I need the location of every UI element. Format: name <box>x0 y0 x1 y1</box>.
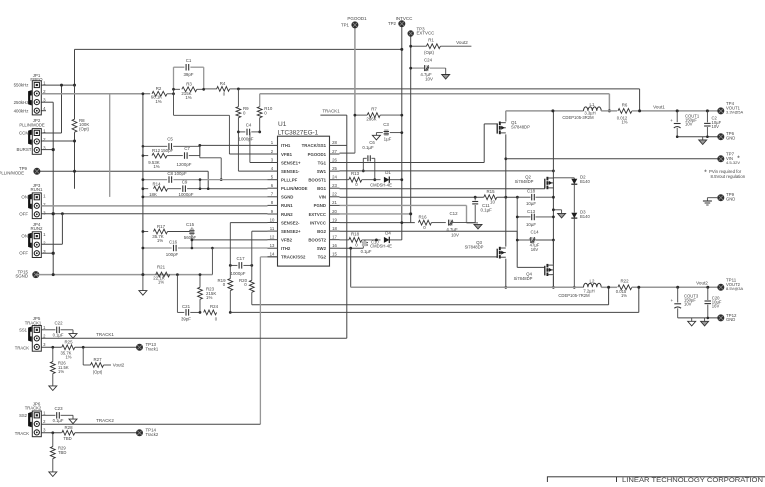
svg-text:400kHz: 400kHz <box>14 108 29 113</box>
pin 12 VFB2 <box>268 239 278 241</box>
svg-text:R7: R7 <box>371 107 377 112</box>
wire JP3 pin3 / RUN2 pin9 row <box>41 213 267 215</box>
svg-text:R22: R22 <box>620 279 629 284</box>
wire comp riser <box>199 145 201 157</box>
resistor R24 <box>204 310 217 315</box>
test point TP1 <box>351 21 358 28</box>
svg-text:C10: C10 <box>371 240 379 245</box>
jumper JP6 TRACK2 <box>32 411 41 437</box>
resistor R6 <box>618 109 632 114</box>
svg-text:R3: R3 <box>186 81 192 86</box>
svg-text:GND: GND <box>726 317 735 322</box>
svg-text:C16: C16 <box>169 239 178 244</box>
wire JP4 pin3 to gnd bus <box>41 252 53 254</box>
svg-text:C21: C21 <box>182 304 191 309</box>
svg-text:0.1µF: 0.1µF <box>481 208 493 213</box>
diode D3 B140 <box>571 213 577 218</box>
pin 6 PLLIN/MODE <box>268 187 278 189</box>
pin 3 SENSE1+ <box>268 162 278 164</box>
resistor R7 PGOOD pullup <box>367 113 380 118</box>
diode D2 B140 <box>573 178 575 179</box>
diode D1 <box>384 177 389 183</box>
pin 8 RUN1 <box>268 204 278 206</box>
svg-text:1000pF: 1000pF <box>239 137 254 142</box>
resistor R23 vertical <box>199 275 201 288</box>
wire TP15 SGND row <box>36 274 213 276</box>
svg-text:100pF: 100pF <box>166 252 179 257</box>
wire SENSE1+ pin3 riser <box>249 132 251 163</box>
jumper JP2 PLLIN/MODE <box>32 129 41 155</box>
svg-text:TRACK: TRACK <box>15 345 29 350</box>
svg-text:GND: GND <box>726 135 735 140</box>
test point TP2 vertical <box>401 24 403 240</box>
svg-text:SS2: SS2 <box>19 413 28 418</box>
wire GND row TP12 <box>678 317 721 319</box>
svg-text:TBD: TBD <box>63 436 71 441</box>
wire SENSE1+ long row grey <box>260 93 610 95</box>
wire sense A long row <box>252 304 609 306</box>
svg-text:C15: C15 <box>186 222 195 227</box>
svg-text:25: 25 <box>332 166 337 171</box>
svg-text:10V: 10V <box>685 122 693 127</box>
capacitor C12 <box>449 220 453 226</box>
capacitor C16 / ITH2 pin13 row <box>143 247 172 249</box>
svg-text:27: 27 <box>332 149 337 154</box>
svg-text:INTVCC: INTVCC <box>310 220 326 225</box>
pin 23 BG1 <box>330 187 340 189</box>
resistor R17 row <box>143 231 148 233</box>
svg-text:TRACK1: TRACK1 <box>322 108 340 113</box>
svg-text:PGOOD1: PGOOD1 <box>347 16 367 21</box>
wire TRACK2 row <box>41 423 260 425</box>
svg-text:R18: R18 <box>351 232 360 237</box>
svg-text:OFF: OFF <box>19 251 28 256</box>
svg-text:1%: 1% <box>206 295 212 300</box>
transistor Q1 Si7848DP <box>505 111 507 122</box>
svg-text:TRACK/SS2: TRACK/SS2 <box>281 255 306 260</box>
wire TRACK1 net riser <box>340 144 347 146</box>
svg-text:1%: 1% <box>158 279 164 284</box>
svg-text:TRACK2: TRACK2 <box>96 418 114 423</box>
svg-text:+: + <box>670 298 673 303</box>
test point TP15 SGND <box>32 271 39 278</box>
resistor R18 <box>349 238 362 243</box>
pin 11 SENSE2+ <box>268 230 278 232</box>
svg-text:SGND: SGND <box>15 274 28 279</box>
svg-text:(Opt): (Opt) <box>93 369 103 374</box>
svg-text:R6: R6 <box>622 102 628 107</box>
svg-text:21: 21 <box>332 200 337 205</box>
svg-text:R12: R12 <box>152 148 161 153</box>
pin 10 SENSE2- <box>268 222 278 224</box>
svg-text:8.5Vout regulation: 8.5Vout regulation <box>711 174 746 179</box>
svg-text:TRACK2: TRACK2 <box>25 406 42 411</box>
pin 20 EXTVCC <box>330 213 340 215</box>
svg-text:0.1µF: 0.1µF <box>362 145 374 150</box>
svg-text:B140: B140 <box>580 179 590 184</box>
resistor R26 vertical <box>52 347 54 361</box>
title block <box>547 477 765 487</box>
svg-text:OFF: OFF <box>19 212 28 217</box>
svg-text:RUN1: RUN1 <box>31 187 44 192</box>
svg-text:1%: 1% <box>155 99 161 104</box>
svg-text:TP2: TP2 <box>388 21 397 26</box>
svg-text:16: 16 <box>332 243 337 248</box>
svg-text:39pF: 39pF <box>183 72 193 77</box>
wire VIN vertical Q1-Q3 <box>505 134 507 246</box>
svg-text:GND: GND <box>726 196 735 201</box>
svg-text:(Opt): (Opt) <box>424 50 435 55</box>
svg-text:R1: R1 <box>428 38 434 43</box>
capacitor C22 <box>41 329 55 331</box>
svg-text:SW2: SW2 <box>317 246 327 251</box>
wire SENSE1- long row <box>238 88 639 90</box>
wire JP2 pin2 row <box>41 140 75 142</box>
svg-text:Si7848DP: Si7848DP <box>514 276 533 281</box>
wire L1 to R6 <box>601 110 617 112</box>
pin 18 BG2 <box>330 230 340 232</box>
svg-text:PLLLPF: PLLLPF <box>281 178 298 183</box>
svg-text:R27: R27 <box>93 357 102 362</box>
capacitor C10 boost2 <box>362 245 364 248</box>
pin 9 RUN2 <box>268 213 278 215</box>
svg-text:BG1: BG1 <box>317 186 326 191</box>
svg-text:R21: R21 <box>157 264 166 269</box>
svg-text:C7: C7 <box>184 146 190 151</box>
test point TP3 <box>408 30 414 36</box>
resistor R4 <box>204 88 217 90</box>
svg-text:1%: 1% <box>58 369 64 374</box>
svg-text:SGND: SGND <box>281 195 293 200</box>
wire sense B long row <box>230 311 639 313</box>
svg-text:(Opt): (Opt) <box>79 126 90 131</box>
wire JP3.3 drop <box>61 214 63 245</box>
resistor R8 <box>74 85 76 119</box>
svg-text:12: 12 <box>270 235 275 240</box>
svg-text:1%: 1% <box>65 355 71 360</box>
svg-text:10: 10 <box>490 199 495 204</box>
svg-text:266K: 266K <box>366 116 376 121</box>
resistor R28 <box>41 432 61 434</box>
svg-text:+: + <box>670 118 673 123</box>
op-amp U1 LTC3827EG-1 box <box>278 136 330 266</box>
svg-text:C22: C22 <box>54 321 63 326</box>
wire cap rail left <box>516 197 518 240</box>
svg-text:17: 17 <box>332 235 337 240</box>
svg-text:0.1µF: 0.1µF <box>53 332 64 337</box>
wire TP9 PLLIN/MODE row <box>37 170 208 172</box>
pin 16 SW2 <box>330 247 340 249</box>
wire INTVCC pin19 row / resistor R16 <box>340 222 415 224</box>
svg-text:16V: 16V <box>712 304 720 309</box>
ground C24 <box>445 68 447 74</box>
svg-text:VFB1: VFB1 <box>281 152 293 157</box>
svg-text:PGND: PGND <box>314 203 326 208</box>
svg-text:R16: R16 <box>418 215 427 220</box>
svg-text:VIN: VIN <box>319 195 326 200</box>
test point TP3 vertical <box>410 34 412 223</box>
svg-text:1200pF: 1200pF <box>177 162 192 167</box>
resistor R13 <box>349 177 362 182</box>
svg-text:28: 28 <box>332 140 337 145</box>
test point TP9 gnd right <box>707 197 717 199</box>
pin 26 TG1 <box>330 162 340 164</box>
capacitor C14 <box>517 239 530 241</box>
transistor Q2 Si7848DP <box>546 177 548 181</box>
svg-text:19: 19 <box>332 217 337 222</box>
pin 24 BOOST1 <box>330 179 340 181</box>
svg-text:RUN2: RUN2 <box>281 212 293 217</box>
resistor R9 vertical <box>237 89 239 107</box>
svg-text:TP1: TP1 <box>341 22 350 27</box>
svg-text:22: 22 <box>332 192 337 197</box>
wire JP2 pin1 row <box>41 132 62 134</box>
wire TRACK/SS2 riser <box>259 257 261 424</box>
svg-text:SENSE1-: SENSE1- <box>281 169 300 174</box>
svg-text:R17: R17 <box>157 224 166 229</box>
svg-text:1%: 1% <box>621 293 627 298</box>
jumper JP5 TRACK1 <box>32 326 41 352</box>
svg-text:R4: R4 <box>220 81 226 86</box>
wire SW2 pin16 row <box>340 247 364 249</box>
svg-text:TBD: TBD <box>58 450 66 455</box>
svg-text:FREQ: FREQ <box>30 77 43 82</box>
svg-text:1%: 1% <box>157 238 163 243</box>
pin 1 ITH1 <box>268 144 278 146</box>
svg-text:150pF: 150pF <box>161 148 174 153</box>
resistor R14 / capacitor C9 row pin6 <box>143 188 148 190</box>
svg-text:13: 13 <box>270 243 275 248</box>
ground at comp bus <box>142 275 144 291</box>
svg-text:D4: D4 <box>385 231 391 236</box>
test point TP2 <box>398 20 405 27</box>
wire VFB1 pin2 row <box>229 153 267 155</box>
wire SW2 drop <box>350 248 352 287</box>
capacitor C18 <box>517 196 530 198</box>
svg-text:39pF: 39pF <box>181 316 191 321</box>
svg-text:C24: C24 <box>424 58 433 63</box>
wire SW1 node vertical <box>552 111 554 287</box>
resistor R21 row <box>156 272 170 277</box>
svg-text:Vout2: Vout2 <box>113 363 125 368</box>
wire RUN1 long row <box>41 205 267 207</box>
wire SENSE1- pin4 row <box>238 170 267 172</box>
svg-text:250kHz: 250kHz <box>14 100 29 105</box>
svg-text:14: 14 <box>270 252 275 257</box>
capacitor C3 <box>390 132 402 134</box>
wire Vout2 row <box>632 286 721 288</box>
pin 25 SW1 <box>330 170 340 172</box>
svg-text:C4: C4 <box>246 122 252 127</box>
svg-text:1%: 1% <box>621 120 627 125</box>
svg-text:TRACK1: TRACK1 <box>25 320 42 325</box>
capacitor C24 <box>411 67 424 69</box>
wire CCM tie vertical <box>61 85 63 133</box>
svg-text:26: 26 <box>332 157 337 162</box>
capacitor C1 top branch <box>174 66 185 68</box>
svg-text:*: * <box>704 169 707 176</box>
wire Vout1 row <box>632 110 721 112</box>
resistor R27 <box>82 347 84 365</box>
wire JP1 pin4 stub <box>41 110 46 112</box>
svg-text:C18: C18 <box>527 188 536 193</box>
svg-text:RUN1: RUN1 <box>281 203 293 208</box>
test point TP4 <box>717 107 724 114</box>
wire SW2 rail <box>351 286 584 288</box>
svg-text:C1: C1 <box>186 58 192 63</box>
svg-text:+: + <box>529 237 532 242</box>
svg-text:LTC3827EG-1: LTC3827EG-1 <box>278 130 319 137</box>
pin 19 INTVCC <box>330 222 340 224</box>
svg-text:R28: R28 <box>64 425 73 430</box>
svg-text:C12: C12 <box>449 211 458 216</box>
test point TP7 <box>717 155 724 162</box>
wire PGND pin21 grey route <box>340 204 467 206</box>
svg-text:TG1: TG1 <box>318 160 327 165</box>
svg-text:C14: C14 <box>530 229 539 234</box>
wire BG1 row <box>340 188 545 190</box>
svg-text:RUN2: RUN2 <box>31 226 44 231</box>
svg-text:BG2: BG2 <box>317 229 326 234</box>
svg-text:BOOST2: BOOST2 <box>308 238 326 243</box>
svg-text:*: * <box>737 155 740 162</box>
svg-text:EXTVCC: EXTVCC <box>309 212 326 217</box>
wire PLLIN/MODE jog to pin6 <box>207 171 209 188</box>
wire SENSE2+ pin11 row <box>252 230 268 232</box>
svg-text:Si7848DP: Si7848DP <box>465 245 484 250</box>
wire VIN pin22 row / resistor R15 <box>340 196 484 198</box>
svg-text:TG2: TG2 <box>318 255 327 260</box>
jumper JP4 RUN2 <box>32 232 41 258</box>
resistor R3 <box>174 88 181 90</box>
svg-text:SW1: SW1 <box>317 169 327 174</box>
pin 28 TRACK/SS1 <box>330 144 340 146</box>
capacitor COUT3 <box>677 287 679 302</box>
svg-text:BURST: BURST <box>17 147 32 152</box>
wire TG2 row <box>340 256 498 258</box>
wire TRACK1 long row to JP5 <box>41 337 347 339</box>
pin 27 PGOOD1 <box>330 153 340 155</box>
svg-text:0.1µF: 0.1µF <box>53 418 64 423</box>
capacitor C8 / PLLLPF pin5 row <box>143 179 167 181</box>
svg-text:Vout2: Vout2 <box>696 281 708 286</box>
wire SW1 output row <box>506 110 584 112</box>
pin 13 ITH2 <box>268 247 278 249</box>
svg-text:C23: C23 <box>54 406 63 411</box>
svg-text:CCM: CCM <box>19 131 29 136</box>
wire JP2 pin3 BURST stub <box>41 149 53 151</box>
resistor R29 vertical <box>52 433 54 447</box>
svg-text:Track2: Track2 <box>146 432 159 437</box>
svg-text:10V: 10V <box>684 302 692 307</box>
svg-text:PLLIN/MODE: PLLIN/MODE <box>19 123 45 128</box>
svg-text:10V: 10V <box>425 77 433 82</box>
pin 2 VFB1 <box>268 153 278 155</box>
svg-text:1%: 1% <box>153 164 159 169</box>
capacitor C13 <box>517 216 530 218</box>
wire PLLLPF branch vertical <box>109 94 111 197</box>
wire GND bus from JP1 pin3 <box>41 101 53 103</box>
wire VIN row TP7 <box>506 158 721 160</box>
wire INTVCC top bus <box>75 48 403 50</box>
capacitor C11 <box>474 197 476 200</box>
test point TP11 <box>717 284 724 291</box>
wire SENSE2- pin10 row <box>230 222 267 224</box>
svg-text:ITH1: ITH1 <box>281 143 291 148</box>
test point TP13 <box>136 344 143 351</box>
jumper JP3 RUN1 <box>32 193 41 219</box>
ground stub mid <box>553 209 561 211</box>
svg-text:TRACK1: TRACK1 <box>96 332 114 337</box>
svg-text:R24: R24 <box>210 304 219 309</box>
wire BG2 row <box>340 230 518 232</box>
capacitor C2 <box>706 111 708 123</box>
svg-text:L2: L2 <box>590 279 595 284</box>
capacitor C17 row <box>230 264 237 266</box>
svg-text:ITH2: ITH2 <box>281 246 291 251</box>
transistor Q3 Si7848DP <box>499 247 501 250</box>
svg-text:LINEAR TECHNOLOGY CORPORATION: LINEAR TECHNOLOGY CORPORATION <box>622 477 763 482</box>
svg-text:Vout2: Vout2 <box>456 40 468 45</box>
resistor R1 <box>411 45 427 47</box>
capacitor C20 <box>707 287 709 300</box>
inductor L1 <box>584 107 602 111</box>
capacitor C5 <box>143 145 167 147</box>
resistor R22 <box>618 285 632 290</box>
svg-text:CDEP105-7R2M: CDEP105-7R2M <box>558 293 590 298</box>
svg-text:1µF: 1µF <box>384 136 392 141</box>
svg-text:ON: ON <box>21 234 28 239</box>
svg-text:ON: ON <box>21 195 28 200</box>
test point TP12 <box>717 314 724 321</box>
svg-text:10: 10 <box>270 217 275 222</box>
svg-text:BOOST1: BOOST1 <box>308 178 326 183</box>
svg-text:SENSE2-: SENSE2- <box>281 220 300 225</box>
pin 14 TRACK/SS2 <box>268 256 278 258</box>
svg-text:R14: R14 <box>152 182 161 187</box>
svg-text:C8 100pF: C8 100pF <box>167 171 187 176</box>
resistor R25 <box>41 346 61 348</box>
svg-text:1000pF: 1000pF <box>231 271 246 276</box>
svg-text:R2: R2 <box>156 86 162 91</box>
jumper JP1 FREQ <box>32 81 41 115</box>
svg-text:3.3V@5A: 3.3V@5A <box>726 110 744 115</box>
wire VFB2 pin12 row <box>192 239 268 241</box>
svg-text:15: 15 <box>332 252 337 257</box>
wire L2 to R22 <box>601 286 617 288</box>
svg-text:R13: R13 <box>351 171 360 176</box>
resistor R12 / capacitor C7 row <box>143 155 148 157</box>
pin 4 SENSE1- <box>268 170 278 172</box>
capacitor C23 <box>41 414 55 416</box>
svg-text:SENSE1+: SENSE1+ <box>281 160 301 165</box>
svg-text:B140: B140 <box>580 214 590 219</box>
test point TP6 <box>717 133 724 140</box>
svg-text:INTVCC: INTVCC <box>396 16 414 21</box>
wire VFB1 branch <box>173 89 175 115</box>
svg-text:10µF: 10µF <box>526 201 536 206</box>
wire JP1 pin1 row <box>41 84 75 86</box>
svg-text:Track1: Track1 <box>146 347 159 352</box>
svg-text:8.5V@3A: 8.5V@3A <box>726 286 744 291</box>
ground open <box>691 318 693 321</box>
svg-text:PLLIN/MODE: PLLIN/MODE <box>0 170 24 175</box>
svg-text:EXTVCC: EXTVCC <box>417 31 435 36</box>
wire SGND pin7 row <box>143 196 268 198</box>
resistor R10 vertical <box>259 94 261 107</box>
capacitor C15 <box>191 228 193 232</box>
svg-text:23: 23 <box>332 183 337 188</box>
